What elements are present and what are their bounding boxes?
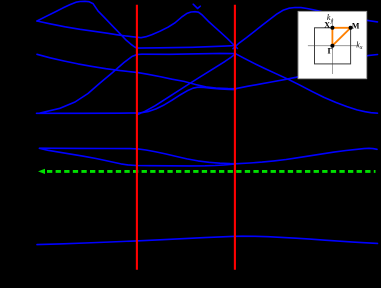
svg-text:y: y <box>330 19 334 25</box>
bottom flat band <box>37 236 378 244</box>
flat band X to M upper <box>137 46 236 49</box>
flat band at 113 rising to peak before M <box>37 87 236 113</box>
inset M dot <box>349 26 353 30</box>
band gentle from Gamma-left to X <box>37 21 137 37</box>
svg-text:X: X <box>324 21 330 30</box>
band rising from Gamma-left 113 to X <box>40 54 142 113</box>
Fermi level green dashed line <box>47 170 376 173</box>
band from Gamma-left 148 descending to 165 flat to M <box>40 148 236 166</box>
band from Gamma-left 54 descending through X to M then up to Gamma-right <box>37 54 378 88</box>
svg-text:x: x <box>359 45 363 51</box>
band X to M with peak <box>137 12 238 49</box>
svg-text:Γ: Γ <box>328 46 333 56</box>
inset Gamma dot <box>330 44 334 48</box>
inset BZ square <box>315 28 351 64</box>
inset X dot <box>330 26 334 30</box>
band descending M to Gamma-right <box>236 54 378 113</box>
flat band X to M at 54 <box>142 52 236 55</box>
band rising M to behind inset then to Gamma-right <box>233 8 378 49</box>
inset ky axis <box>331 18 333 74</box>
red vertical line at M <box>234 5 236 270</box>
inset white box <box>298 11 367 78</box>
small dip curve near top between X and M <box>193 4 200 8</box>
band flat 148 dipping at M rising to Gamma-right <box>40 148 378 164</box>
inset orange path Gamma-X-M-Gamma <box>332 28 350 46</box>
red vertical line at X <box>136 5 138 270</box>
green left arrowhead <box>38 169 45 174</box>
inset Brillouin zone <box>298 11 367 78</box>
inset kx axis <box>308 45 357 47</box>
svg-text:M: M <box>352 22 360 31</box>
band upper branch from Gamma-left up to flat top then steep down to X <box>37 1 137 48</box>
steep band X(114) to M(54) <box>138 54 236 115</box>
